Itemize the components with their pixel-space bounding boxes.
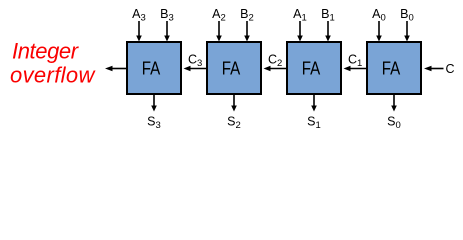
- svg-text:S1: S1: [307, 115, 321, 132]
- full adder FA3: [127, 42, 181, 94]
- wire C3: carry from FA2 to FA3: [184, 66, 207, 72]
- full adder FA1: [287, 42, 341, 94]
- wire S0 out of FA0: [391, 95, 397, 112]
- wire S2 out of FA2: [231, 95, 237, 112]
- wire B0 into FA0: [404, 21, 410, 42]
- svg-text:overflow: overflow: [10, 63, 96, 88]
- svg-text:S2: S2: [227, 115, 241, 132]
- svg-text:C: C: [446, 62, 455, 76]
- wire carry-out (overflow) from FA3 left side: [105, 66, 126, 72]
- svg-text:FA: FA: [222, 59, 241, 79]
- wire A3 into FA3: [136, 21, 142, 42]
- wire B3 into FA3: [164, 21, 170, 42]
- svg-text:FA: FA: [302, 59, 321, 79]
- wire S1 out of FA1: [311, 95, 317, 112]
- wire C2: carry from FA1 to FA2: [264, 66, 287, 72]
- annotation: "Integer overflow" note: [10, 39, 96, 88]
- wire C1: carry from FA0 to FA1: [344, 66, 367, 72]
- svg-text:S0: S0: [387, 115, 401, 132]
- wire A0 into FA0: [376, 21, 382, 42]
- wire carry-in C into FA0 right side: [424, 66, 444, 72]
- wire B1 into FA1: [325, 21, 331, 42]
- full adder FA0: [367, 42, 421, 94]
- wire B2 into FA2: [244, 21, 250, 42]
- svg-text:Integer: Integer: [12, 39, 80, 64]
- svg-text:FA: FA: [382, 59, 401, 79]
- svg-text:S3: S3: [147, 115, 161, 132]
- full adder FA2: [207, 42, 261, 94]
- svg-text:FA: FA: [142, 59, 161, 79]
- wire A2 into FA2: [216, 21, 222, 42]
- wire S3 out of FA3: [151, 95, 157, 112]
- wire A1 into FA1: [297, 21, 303, 42]
